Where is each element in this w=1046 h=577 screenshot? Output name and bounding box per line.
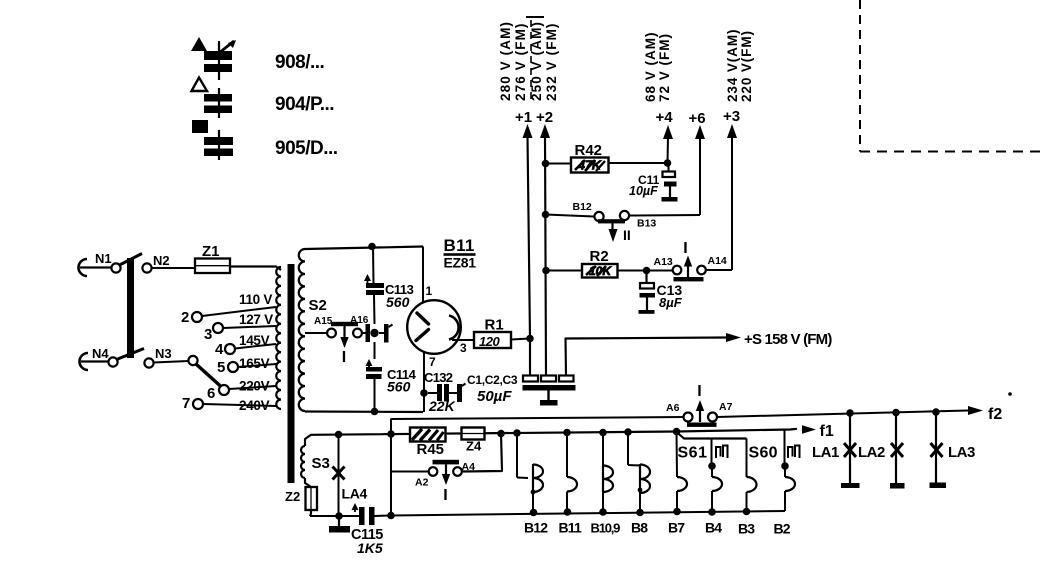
svg-text:Z2: Z2	[285, 489, 300, 504]
svg-text:EZ81: EZ81	[444, 255, 477, 271]
svg-text:904/P...: 904/P...	[275, 94, 334, 115]
svg-text:B4: B4	[705, 520, 722, 536]
svg-text:R45: R45	[417, 441, 445, 458]
svg-text:I: I	[443, 487, 447, 504]
svg-text:S60: S60	[749, 445, 778, 462]
svg-text:Z4: Z4	[466, 439, 482, 454]
svg-text:560: 560	[387, 379, 411, 395]
svg-text:7: 7	[429, 355, 436, 369]
svg-text:3: 3	[460, 341, 467, 355]
svg-text:10K: 10K	[589, 264, 612, 278]
svg-text:B12: B12	[524, 520, 548, 536]
svg-text:f2: f2	[988, 406, 1002, 423]
svg-text:3: 3	[204, 326, 212, 343]
svg-text:S2: S2	[309, 297, 327, 314]
svg-text:234 V(AM): 234 V(AM)	[725, 29, 740, 102]
svg-text:+3: +3	[723, 108, 740, 125]
svg-text:R2: R2	[590, 248, 609, 265]
svg-text:A13: A13	[654, 256, 673, 268]
svg-text:A7: A7	[719, 401, 733, 413]
svg-text:B3: B3	[738, 521, 755, 537]
svg-text:905/D...: 905/D...	[275, 138, 338, 159]
svg-text:560: 560	[386, 294, 410, 310]
svg-text:N1: N1	[95, 251, 112, 266]
svg-text:Z1: Z1	[202, 243, 220, 260]
svg-text:47K: 47K	[577, 159, 602, 173]
svg-text:C132: C132	[424, 370, 453, 385]
svg-text:A14: A14	[708, 255, 727, 267]
svg-text:A6: A6	[666, 402, 680, 414]
svg-text:LA2: LA2	[858, 444, 885, 461]
svg-text:7: 7	[182, 395, 190, 412]
svg-text:5: 5	[217, 359, 225, 376]
svg-text:+1: +1	[515, 109, 532, 126]
svg-text:50µF: 50µF	[477, 388, 512, 405]
svg-text:S61: S61	[678, 445, 708, 462]
svg-text:S3: S3	[312, 455, 330, 472]
svg-text:110 V: 110 V	[239, 292, 272, 307]
svg-text:A2: A2	[415, 477, 429, 489]
svg-text:1: 1	[426, 284, 433, 298]
svg-text:N4: N4	[92, 346, 109, 361]
svg-text:120: 120	[479, 334, 500, 349]
svg-text:LA1: LA1	[812, 444, 839, 461]
svg-text:I: I	[697, 383, 701, 400]
svg-text:22K: 22K	[428, 398, 456, 414]
svg-text:10µF: 10µF	[629, 184, 658, 198]
svg-text:1K5: 1K5	[357, 540, 383, 556]
svg-text:N3: N3	[155, 346, 172, 361]
svg-text:f1: f1	[820, 423, 834, 440]
svg-text:2: 2	[181, 309, 189, 326]
svg-text:B8: B8	[631, 520, 648, 536]
svg-text:LA3: LA3	[948, 444, 975, 461]
svg-text:908/...: 908/...	[275, 52, 324, 73]
svg-text:B7: B7	[668, 520, 685, 536]
svg-text:+6: +6	[688, 110, 705, 127]
svg-text:II: II	[623, 227, 631, 243]
svg-text:8µF: 8µF	[659, 295, 683, 310]
svg-text:165V: 165V	[239, 356, 270, 371]
svg-text:A15: A15	[314, 316, 333, 327]
svg-text:6: 6	[207, 385, 215, 402]
svg-text:+S 158 V (FM): +S 158 V (FM)	[744, 331, 832, 348]
svg-text:276 V (FM): 276 V (FM)	[513, 22, 528, 101]
svg-text:B12: B12	[573, 201, 592, 213]
svg-text:N2: N2	[153, 253, 170, 268]
svg-text:B13: B13	[637, 218, 656, 230]
svg-text:C1,C2,C3: C1,C2,C3	[467, 373, 518, 387]
svg-text:+4: +4	[655, 109, 673, 126]
svg-text:B10,9: B10,9	[591, 521, 621, 536]
svg-text:4: 4	[215, 341, 224, 358]
svg-text:72 V (FM): 72 V (FM)	[657, 33, 672, 102]
svg-text:232 V (FM): 232 V (FM)	[544, 22, 559, 101]
svg-text:B11: B11	[559, 520, 583, 536]
svg-text:127 V: 127 V	[239, 312, 273, 327]
svg-text:280 V (AM): 280 V (AM)	[498, 21, 513, 101]
svg-text:I: I	[342, 349, 346, 366]
svg-text:LA4: LA4	[342, 486, 368, 502]
svg-text:R42: R42	[575, 142, 603, 159]
svg-text:68 V (AM): 68 V (AM)	[643, 31, 658, 102]
svg-text:+2: +2	[536, 109, 553, 126]
svg-text:B2: B2	[774, 521, 791, 537]
svg-text:220 V(FM): 220 V(FM)	[739, 30, 754, 102]
svg-text:I: I	[683, 240, 687, 257]
svg-text:B11: B11	[444, 236, 475, 255]
